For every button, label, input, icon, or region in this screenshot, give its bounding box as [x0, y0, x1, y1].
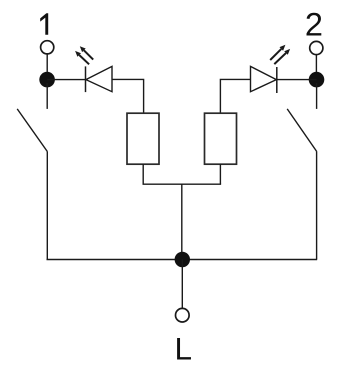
wire LED D2 to resistor R2 — [220, 79, 250, 113]
terminal 1 (open circle) — [41, 41, 54, 54]
LED D2 cathode bar — [276, 67, 278, 93]
wire node C to terminal L — [181, 260, 183, 309]
wire terminal 2 to node B — [315, 55, 317, 73]
wire LED D2 to node B — [277, 79, 317, 81]
LED D1 emission arrow 1 — [75, 51, 89, 64]
switch S2 blade — [287, 109, 317, 152]
node B (junction dot right) — [309, 72, 325, 88]
wire resistor R2 to join bar — [219, 164, 221, 184]
wire resistor R1 to join bar — [142, 164, 144, 184]
wire node A to switch S1 fixed contact — [46, 83, 48, 109]
wire bottom horizontal bus — [47, 259, 318, 261]
wire switch S1 down left side — [46, 152, 48, 260]
svg-text:L: L — [175, 331, 193, 367]
LED D1 cathode bar — [85, 66, 87, 92]
wire node B to switch S2 fixed contact — [316, 83, 318, 109]
resistor R2 — [205, 113, 237, 164]
resistor R1 — [127, 113, 159, 164]
LED D1 emission arrow 2 — [80, 46, 93, 59]
node A (junction dot left) — [39, 72, 55, 88]
node C (junction dot bottom) — [175, 252, 190, 267]
wire LED D1 to resistor R1 — [112, 79, 144, 113]
svg-text:2: 2 — [305, 6, 323, 42]
wire node A to LED D1 — [47, 79, 85, 81]
terminal 2 (open circle) — [310, 41, 323, 54]
LED D1 triangle — [86, 66, 112, 91]
wire switch S2 down right side — [316, 152, 318, 260]
LED D2 triangle — [251, 66, 277, 91]
terminal L (open circle) — [176, 308, 190, 322]
LED D2 emission arrow 1 — [270, 45, 285, 60]
wire join bar between resistors — [143, 183, 222, 185]
LED D2 emission arrow 2 — [274, 49, 290, 64]
wire join bar to node C — [181, 184, 183, 259]
switch S1 blade — [17, 109, 47, 152]
label terminal 1 — [40, 13, 48, 35]
wire terminal 1 to node A — [46, 54, 48, 73]
